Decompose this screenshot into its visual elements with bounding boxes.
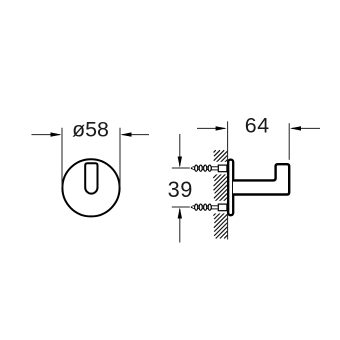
side view: wall plate: [228, 160, 233, 216]
dim ø58: arrowhead left: [51, 132, 62, 136]
dim ø58: arrowhead right: [121, 132, 132, 136]
dim 64: arrowhead left: [216, 126, 227, 130]
hatch clearance around bottom screw: [213, 201, 227, 214]
bottom screw and wall plug: [191, 204, 227, 211]
wall surface line: [227, 121, 229, 239]
dim ø58: extension line right: [119, 128, 121, 188]
dim ø58: leader line right: [122, 134, 149, 136]
svg-text:64: 64: [245, 114, 270, 138]
front view: hook tip U outline: [85, 163, 97, 193]
dim 64: leader line left: [197, 127, 225, 129]
dim 39: extension line bottom: [172, 206, 190, 208]
hatch clearance around top screw: [213, 162, 227, 175]
top screw sleeve at wall: [218, 165, 227, 172]
top screw shaft: [211, 167, 218, 170]
dim 64: arrowhead right: [290, 126, 301, 130]
dim ø58: extension line left: [61, 128, 63, 188]
svg-text:39: 39: [168, 177, 193, 202]
bottom plug ribs: [195, 204, 198, 210]
dim 39: arrowhead bottom: [178, 208, 182, 219]
wall section hatching: [213, 150, 227, 238]
front view: rosette circle: [62, 159, 119, 216]
dim 64: extension line right: [288, 123, 290, 160]
dim 39: arrowhead top: [178, 157, 182, 168]
dim 39: extension line top: [172, 167, 190, 169]
bottom screw shaft: [211, 206, 218, 209]
dim 64: leader line right: [292, 127, 321, 129]
top screw tip dot: [191, 167, 193, 169]
bottom screw sleeve at wall: [218, 204, 227, 211]
dim 39: leader line top: [179, 134, 181, 166]
top plug ribs: [195, 165, 198, 171]
svg-text:ø58: ø58: [72, 118, 109, 142]
top screw core lines: [193, 166, 212, 168]
top screw and wall plug: [191, 165, 227, 172]
side view: hook arm with upturned tip: [233, 164, 289, 194]
dim 39: leader line bottom: [179, 209, 181, 243]
dim ø58: leader line left: [32, 134, 61, 136]
bottom screw tip dot: [191, 206, 193, 208]
bottom screw core lines: [193, 205, 212, 207]
